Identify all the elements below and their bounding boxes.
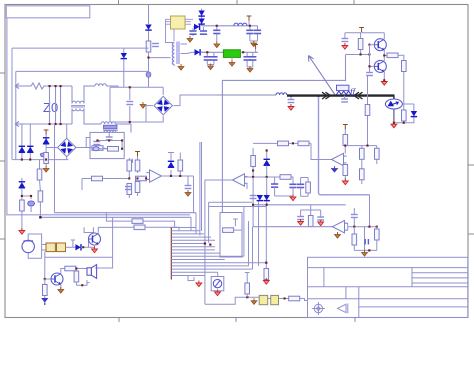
node dots rail1	[206, 25, 251, 54]
triac U2	[385, 99, 402, 109]
capacitor C24	[297, 217, 304, 220]
wire loop top-left	[6, 6, 90, 18]
resistor R29	[361, 159, 363, 169]
capacitor C18	[125, 187, 132, 190]
ground brown C2	[187, 36, 193, 42]
wire BR1 right up	[173, 95, 216, 106]
resistor R13	[92, 176, 103, 181]
trimmer arrow	[42, 152, 46, 157]
wire top drop	[132, 159, 134, 163]
wire top rail to bridge	[110, 87, 163, 95]
frame tick left 3	[0, 238, 5, 240]
wire R22 link	[234, 229, 242, 231]
wire primary tap	[149, 57, 171, 59]
wire spk return	[76, 280, 89, 285]
wire verticals drop	[253, 177, 267, 266]
title block line h7 right	[412, 282, 468, 284]
wire BR2 right	[76, 138, 92, 148]
ground red Q2	[381, 79, 387, 85]
transformer T1 leads	[165, 43, 187, 67]
zener ZD4	[21, 178, 23, 182]
triac arrows	[388, 101, 395, 107]
resistor R31	[280, 175, 291, 180]
junction dot row250	[368, 249, 370, 251]
shunt winding hatch	[337, 91, 351, 94]
resistor R27	[344, 164, 346, 166]
comb line 9	[171, 252, 220, 254]
node dot Q2b	[368, 65, 370, 67]
resistor R12	[402, 110, 407, 121]
node dots rails	[49, 85, 62, 125]
wire bias row2	[345, 145, 377, 147]
comb line 16	[171, 275, 205, 277]
comb line 1	[171, 227, 196, 229]
IC U1 pins right	[185, 19, 193, 24]
title block line v2	[345, 287, 347, 299]
capacitor C3	[203, 27, 205, 31]
ground brown C56	[250, 40, 258, 42]
wire link h2	[209, 206, 267, 208]
capacitor C9	[93, 142, 100, 145]
wire from top border	[148, 5, 150, 25]
diode D5	[21, 143, 23, 160]
wire BR1 bottom	[131, 116, 163, 122]
capacitor C8	[213, 52, 215, 64]
ground U4	[332, 166, 338, 172]
resistor R4	[44, 153, 49, 164]
resistor R24	[278, 141, 289, 146]
bus to comb stub 2	[195, 213, 197, 234]
diode D4	[198, 19, 204, 25]
ground red R27	[342, 179, 348, 185]
capacitor C6	[257, 26, 259, 41]
wire to opamp1	[311, 143, 332, 159]
capacitor C7	[206, 52, 208, 64]
inductor L2	[95, 84, 118, 88]
ground brown U6	[335, 232, 341, 238]
ground brown C11	[140, 102, 146, 108]
terminal arrow L	[15, 84, 22, 89]
wire link h1	[209, 201, 252, 203]
arrow marker left	[354, 92, 363, 99]
hook wire	[188, 276, 194, 281]
wire R39 to spk	[76, 269, 87, 272]
bus wire 1	[55, 212, 197, 214]
pin P7	[343, 125, 348, 130]
capacitor C27	[364, 227, 367, 251]
node dot spk2	[81, 284, 83, 286]
ground blue R38	[41, 298, 48, 303]
node dots bridge	[129, 86, 131, 123]
comb line 2	[171, 230, 200, 232]
node dot thickline	[290, 95, 292, 97]
wire diode to base	[81, 239, 95, 247]
op-amp U4	[332, 153, 347, 165]
vertical riser 3	[252, 227, 254, 269]
resistor R9	[360, 33, 362, 39]
resistor R16	[127, 184, 132, 195]
wire BR2 left	[46, 147, 57, 149]
choke L1 core	[71, 105, 85, 107]
node dot X34	[284, 297, 286, 299]
wire thickline to triac	[393, 96, 395, 100]
ground red Q3	[92, 247, 98, 253]
wire Q4 emitter	[60, 284, 62, 289]
title block line v4	[411, 268, 413, 287]
capacitor C4	[216, 26, 218, 42]
arrow marker right	[322, 92, 331, 99]
resistor R39	[65, 266, 76, 271]
resistor R42	[265, 263, 267, 269]
bus wire 2	[40, 216, 191, 218]
frame tick left 1	[0, 72, 5, 74]
wire U3 out	[162, 175, 194, 177]
node dot emitter rail	[383, 79, 385, 81]
resistor R28	[361, 146, 363, 149]
zener ZD3	[266, 149, 268, 160]
capacitor C21	[274, 177, 276, 184]
resistor R17	[135, 182, 140, 193]
output rail 2b	[240, 51, 258, 53]
choke L3 bold winding B	[104, 125, 118, 129]
node dots row226	[353, 226, 378, 228]
wire node row196	[22, 196, 31, 200]
resistor R33	[307, 178, 309, 183]
ground red C22	[290, 195, 296, 201]
transformer T1 core	[176, 42, 178, 65]
wire aux rail A	[12, 47, 149, 49]
ground brown C19	[185, 190, 191, 196]
capacitor C1	[152, 44, 159, 47]
pin P9	[245, 273, 250, 284]
resistor R23	[367, 76, 369, 105]
resistor R8	[108, 147, 119, 152]
wire left drop	[109, 87, 111, 122]
wire R33 loop	[275, 178, 309, 197]
choke L3 winding A	[101, 122, 131, 133]
ground red C24	[298, 219, 304, 225]
comb line 4	[171, 236, 211, 238]
capacitor C26	[353, 208, 355, 215]
node dot comb12	[265, 262, 267, 264]
comb line 7	[171, 246, 215, 248]
wire gnd row 250	[354, 249, 377, 251]
capacitor CX3	[60, 86, 62, 124]
node dots opamp in	[128, 177, 147, 179]
wire Q2 base stub	[370, 65, 375, 67]
wire R11 down	[403, 72, 405, 105]
node dot Q1e	[383, 54, 385, 56]
comb line 5	[171, 239, 215, 241]
output rail 2	[201, 51, 224, 53]
wire opamp return	[205, 179, 234, 181]
diode D9	[411, 111, 417, 117]
IC U1 pins left	[166, 19, 171, 42]
wire rail L	[44, 85, 72, 87]
wire R7 to box	[103, 147, 107, 150]
diode D10	[257, 195, 263, 201]
coupling box X3	[259, 295, 268, 304]
transistor Q1	[374, 39, 386, 51]
frame tick top 3	[353, 0, 355, 5]
diode D12	[75, 244, 81, 250]
wire Q1 base link	[370, 45, 375, 67]
ground brown FB1	[231, 57, 233, 62]
pin P3	[253, 45, 258, 50]
transformer T1 winding	[172, 43, 174, 65]
capacitor C11	[129, 87, 131, 122]
capacitor C16	[344, 33, 346, 39]
wire Q3 emitter	[94, 245, 96, 249]
node dot lower rail	[21, 159, 47, 161]
wire Q3 collector	[98, 227, 112, 233]
vertical riser 1	[243, 207, 245, 256]
choke L3 core	[103, 129, 118, 131]
capacitor C10	[108, 132, 110, 137]
node dots row2	[344, 145, 368, 147]
bridge BR2	[57, 138, 75, 156]
pin P5	[135, 152, 140, 157]
ground red C14	[288, 104, 294, 110]
wire drop B	[15, 71, 17, 159]
resistor R38	[44, 279, 46, 285]
plug oval	[93, 147, 99, 151]
node dots box	[96, 139, 123, 149]
resistor R10	[384, 55, 387, 57]
coupling box X1	[46, 243, 55, 252]
wire row 177	[245, 176, 281, 178]
transistor Q4	[51, 273, 63, 285]
wire base drop	[45, 252, 113, 279]
output rail 1	[202, 25, 258, 27]
resistor R14	[128, 158, 130, 160]
resistor R37	[20, 200, 25, 211]
resistor R19	[179, 171, 181, 176]
wire R1 down	[148, 52, 150, 87]
wire U6 right net	[345, 223, 377, 230]
capacitor C20	[250, 196, 257, 199]
ground brown row250	[362, 250, 368, 256]
resistor R26	[344, 129, 346, 135]
wire R6 to bus	[39, 202, 41, 217]
ground red triac	[391, 122, 397, 128]
transistor Q3	[89, 233, 101, 245]
pin P2	[247, 16, 252, 21]
ferrite bead on wire	[146, 72, 151, 77]
capacitor C17	[369, 66, 371, 72]
capacitor C14	[290, 96, 292, 100]
pin P4	[359, 28, 364, 33]
frame tick bottom 2	[235, 318, 237, 323]
vertical long 2b	[201, 142, 203, 231]
diode D11	[264, 195, 270, 201]
title block line h3	[308, 298, 468, 300]
speaker LS1	[87, 268, 91, 275]
node dots row177	[252, 150, 268, 179]
node dots row196	[21, 195, 32, 197]
capacitor C15	[344, 96, 346, 99]
inductor L4 on box	[104, 131, 116, 133]
resistor R15	[137, 156, 139, 160]
fuse F1 zigzag	[22, 83, 49, 89]
comb line 10	[171, 255, 244, 257]
resistor R40	[74, 271, 79, 282]
resistor R43	[289, 296, 300, 301]
wire to diode	[66, 246, 76, 248]
choke L1 winding A	[72, 86, 95, 104]
diode D7	[193, 26, 199, 28]
vertical long 2	[204, 180, 206, 304]
wire bottom to bridge	[110, 106, 153, 122]
resistor R36	[376, 227, 378, 229]
wire Q2 emitter	[383, 72, 385, 81]
coupling box X2	[57, 243, 66, 252]
frame tick bottom 3	[354, 318, 356, 323]
capacitor C19	[187, 176, 189, 186]
wire row 226	[253, 226, 332, 228]
ground red hook	[196, 281, 202, 287]
pin P8	[71, 240, 75, 247]
diode D8	[187, 52, 210, 53]
mic loop wire	[28, 234, 41, 258]
pin P1	[44, 130, 49, 135]
node dot row143	[292, 142, 294, 144]
ground brown row297	[251, 298, 257, 304]
wire mid tap 1	[106, 213, 132, 221]
zener ZD1	[45, 135, 47, 153]
node dot spk	[75, 267, 77, 269]
frame tick top 2	[236, 0, 238, 5]
ground red C16	[342, 43, 348, 49]
junction dot riser	[204, 242, 206, 244]
lamp B1	[211, 277, 224, 291]
node dots bias	[360, 44, 371, 56]
comb line 8	[171, 249, 215, 251]
wire row 143	[253, 142, 311, 144]
wire diode tops	[22, 124, 30, 143]
resistor R32	[252, 148, 254, 156]
pin P6	[233, 219, 238, 226]
wire BR2 top	[66, 124, 68, 138]
resistor R25	[298, 141, 309, 146]
sub row caps	[301, 205, 321, 217]
title block line v3	[358, 287, 360, 318]
comb line 11	[171, 259, 224, 261]
wire input left	[82, 179, 128, 191]
capacitor C2	[192, 28, 194, 36]
wire D1 down	[148, 31, 150, 42]
inductor L5	[234, 23, 247, 26]
wire D2 stubs	[123, 48, 125, 87]
comb spine	[170, 227, 172, 280]
capacitor C5	[249, 26, 251, 41]
junction dot comb	[209, 244, 211, 246]
vertical riser 2	[248, 221, 250, 266]
title block line h2	[308, 286, 468, 288]
ground brown C4	[214, 42, 220, 48]
IC U1 PWM	[171, 16, 186, 29]
wire bias row	[346, 54, 370, 56]
ground brown Q4	[58, 287, 64, 293]
wire lower rail	[12, 159, 68, 161]
choke L1 winding B	[72, 109, 101, 125]
thick power line	[287, 94, 395, 96]
junction dot bus2	[39, 216, 41, 218]
capacitor C13	[252, 52, 254, 67]
diode D2	[121, 53, 127, 59]
op-amp U6	[333, 221, 348, 233]
wire triac gate loop	[394, 104, 414, 123]
transistor Q2	[374, 60, 386, 72]
wire X3 X4 link	[268, 298, 271, 300]
comb line 6	[171, 243, 206, 245]
inductor L6	[276, 93, 287, 95]
wire U3 out down	[193, 176, 195, 213]
title block crosshair symbol	[312, 302, 325, 315]
filter box	[90, 132, 124, 158]
wire Q1 emitter to Q2	[383, 50, 385, 61]
coupling box X4	[271, 295, 279, 304]
frame tick top 1	[118, 0, 120, 5]
resistor R41	[245, 283, 250, 294]
frame tick right 2	[468, 233, 474, 235]
wire drop A	[11, 48, 13, 160]
wire feedback down	[369, 195, 371, 227]
resistor R18	[136, 176, 147, 181]
wire Q4 collector	[61, 269, 65, 274]
vertical from thick line	[319, 97, 370, 195]
microphone plates	[24, 240, 34, 242]
microphone MK1	[22, 240, 34, 252]
wire mains dc rail	[217, 94, 277, 96]
ground brown C1213	[247, 66, 253, 68]
frame tick left 2	[0, 160, 5, 162]
rail top	[345, 32, 384, 34]
diode D3	[201, 9, 203, 26]
resistor R35	[353, 227, 355, 234]
capacitor C23	[300, 178, 302, 185]
wire U1 bottom	[173, 29, 175, 41]
title block line h1	[308, 267, 468, 269]
node dots U3 out	[170, 175, 181, 177]
ground red R42	[263, 278, 269, 284]
trimmer RV1	[28, 201, 35, 206]
resistor R20	[132, 219, 143, 224]
wire long feedback horizontal	[222, 55, 345, 213]
adjust arrow diagonal	[309, 56, 335, 95]
comb line 12	[171, 262, 266, 264]
zener ZD2	[168, 153, 174, 177]
relay box	[220, 213, 242, 258]
wire hook small	[84, 227, 93, 232]
comb line 13	[171, 265, 248, 267]
wire mid tap 2	[113, 217, 138, 257]
wire lamp feed	[217, 272, 219, 276]
node dots triac	[393, 122, 405, 124]
resistor R6	[38, 191, 43, 202]
capacitor CX2	[55, 86, 57, 124]
junction dot tap	[147, 57, 149, 59]
wire triac bottom	[393, 109, 395, 124]
wire rail N	[23, 123, 72, 125]
capacitor C12	[246, 52, 248, 67]
op-amp U5	[233, 174, 248, 186]
comb line 3	[171, 233, 204, 235]
wire aux rail B	[16, 70, 149, 72]
title block line h5 right	[412, 272, 468, 274]
ground brown T1	[178, 64, 184, 70]
title block line h4	[359, 306, 468, 308]
